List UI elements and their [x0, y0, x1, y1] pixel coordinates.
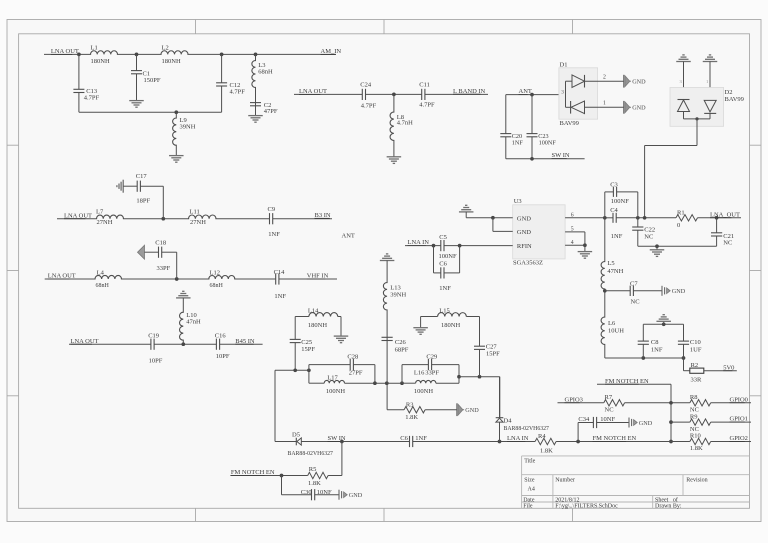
svg-text:1: 1: [603, 100, 606, 106]
svg-text:D1: D1: [560, 61, 568, 68]
svg-text:1UF: 1UF: [690, 347, 702, 354]
svg-text:ANT: ANT: [519, 88, 532, 95]
svg-text:100NH: 100NH: [414, 388, 433, 395]
svg-text:15PF: 15PF: [301, 346, 315, 353]
svg-text:180NH: 180NH: [441, 322, 460, 329]
svg-text:C10: C10: [690, 339, 701, 346]
svg-text:B3 IN: B3 IN: [315, 212, 331, 219]
svg-text:NC: NC: [631, 299, 640, 306]
svg-text:180NH: 180NH: [162, 58, 181, 65]
svg-text:R1: R1: [677, 210, 685, 217]
svg-text:LNA OUT: LNA OUT: [71, 338, 99, 345]
svg-text:10UH: 10UH: [608, 327, 624, 334]
svg-text:Number: Number: [555, 477, 575, 483]
svg-text:Title: Title: [524, 459, 535, 465]
svg-text:BAV99: BAV99: [560, 120, 579, 127]
svg-text:L12: L12: [210, 270, 220, 277]
svg-text:C29: C29: [426, 353, 437, 360]
svg-text:47NH: 47NH: [607, 268, 623, 275]
svg-text:33PF: 33PF: [157, 265, 171, 272]
svg-text:C24: C24: [360, 82, 372, 89]
svg-text:LNA OUT: LNA OUT: [51, 48, 79, 55]
svg-text:GPIO1: GPIO1: [730, 416, 748, 423]
svg-text:4.7PF: 4.7PF: [361, 103, 377, 110]
svg-text:6: 6: [571, 212, 574, 218]
svg-text:15PF: 15PF: [486, 351, 500, 358]
svg-text:L BAND IN: L BAND IN: [453, 88, 486, 95]
svg-text:RFIN: RFIN: [517, 243, 532, 250]
svg-text:1.8K: 1.8K: [690, 445, 703, 452]
svg-text:2: 2: [603, 74, 606, 80]
svg-text:L16: L16: [414, 370, 425, 377]
svg-text:BAV99: BAV99: [725, 96, 744, 103]
svg-text:B45 IN: B45 IN: [235, 338, 255, 345]
svg-text:L17: L17: [327, 375, 338, 382]
svg-text:L4: L4: [97, 270, 105, 277]
svg-text:LNA OUT: LNA OUT: [299, 88, 327, 95]
svg-text:100NH: 100NH: [326, 388, 345, 395]
svg-text:10PF: 10PF: [216, 353, 230, 360]
svg-text:FM NOTCH EN: FM NOTCH EN: [605, 378, 649, 385]
svg-text:68PF: 68PF: [395, 347, 409, 354]
svg-text:LNA IN: LNA IN: [408, 239, 430, 246]
svg-text:1NF: 1NF: [415, 435, 427, 442]
svg-text:C34: C34: [578, 416, 590, 423]
svg-text:47PF: 47PF: [264, 108, 278, 115]
svg-text:C18: C18: [155, 240, 166, 247]
svg-text:C14: C14: [274, 269, 286, 276]
svg-text:LNA OUT: LNA OUT: [48, 273, 76, 280]
svg-text:R9: R9: [690, 413, 698, 420]
svg-text:ANT: ANT: [342, 233, 355, 240]
svg-text:C19: C19: [148, 332, 159, 339]
svg-text:33PF: 33PF: [425, 370, 439, 377]
svg-text:VHF IN: VHF IN: [307, 273, 329, 280]
svg-text:R7: R7: [605, 394, 613, 401]
svg-text:R3: R3: [406, 402, 414, 409]
svg-text:GND: GND: [517, 229, 531, 236]
svg-text:180NH: 180NH: [91, 58, 110, 65]
svg-text:L2: L2: [162, 44, 169, 51]
svg-text:GND: GND: [632, 105, 646, 112]
svg-text:C16: C16: [215, 332, 227, 339]
svg-text:BAR88-02VH6327: BAR88-02VH6327: [288, 451, 334, 457]
svg-text:SW IN: SW IN: [552, 152, 570, 159]
svg-text:5: 5: [571, 227, 574, 233]
svg-text:C4: C4: [610, 207, 618, 214]
svg-text:1NF: 1NF: [268, 231, 280, 238]
svg-text:F:\yg\..\FILTERS.SchDoc: F:\yg\..\FILTERS.SchDoc: [555, 503, 618, 509]
svg-text:C26: C26: [395, 339, 407, 346]
svg-text:4: 4: [571, 240, 574, 246]
svg-text:150PF: 150PF: [144, 77, 161, 84]
svg-text:C9: C9: [268, 206, 276, 213]
svg-text:1NF: 1NF: [611, 233, 623, 240]
svg-text:U3: U3: [514, 198, 522, 205]
svg-text:R5: R5: [309, 466, 317, 473]
svg-text:LNA OUT: LNA OUT: [64, 212, 92, 219]
svg-text:GND: GND: [672, 288, 686, 295]
svg-text:1NF: 1NF: [274, 293, 286, 300]
svg-text:NC: NC: [605, 407, 614, 414]
svg-text:LNA IN: LNA IN: [507, 435, 529, 442]
svg-text:C6: C6: [439, 260, 447, 267]
svg-text:1.8K: 1.8K: [540, 448, 553, 455]
svg-text:68nH: 68nH: [258, 68, 273, 75]
svg-text:C7: C7: [630, 280, 638, 287]
svg-text:GND: GND: [632, 79, 646, 86]
svg-text:3: 3: [561, 89, 564, 95]
svg-text:100NF: 100NF: [611, 198, 629, 205]
svg-text:L7: L7: [96, 208, 104, 215]
svg-text:4.7PF: 4.7PF: [230, 89, 246, 96]
svg-text:AM_IN: AM_IN: [321, 48, 342, 55]
svg-text:D5: D5: [292, 431, 300, 438]
svg-text:GND: GND: [639, 420, 653, 427]
svg-text:27NH: 27NH: [190, 219, 206, 226]
svg-text:Revision: Revision: [686, 477, 707, 483]
svg-text:Drawn By:: Drawn By:: [655, 503, 682, 509]
svg-text:5V0: 5V0: [723, 364, 734, 371]
svg-text:GPIO2: GPIO2: [730, 435, 748, 442]
svg-text:NC: NC: [644, 233, 653, 240]
svg-text:GND: GND: [465, 407, 479, 414]
svg-text:10NF: 10NF: [600, 416, 615, 423]
svg-text:4.7PF: 4.7PF: [84, 95, 100, 102]
svg-text:C6: C6: [400, 435, 408, 442]
svg-text:C5: C5: [439, 234, 447, 241]
svg-text:68nH: 68nH: [210, 283, 224, 289]
svg-text:C11: C11: [419, 82, 430, 89]
svg-text:L5: L5: [607, 260, 614, 267]
svg-text:C27: C27: [486, 344, 498, 351]
svg-text:FM NOTCH EN: FM NOTCH EN: [231, 469, 275, 476]
svg-text:39NH: 39NH: [180, 123, 196, 130]
svg-text:A4: A4: [528, 487, 535, 493]
svg-text:D4: D4: [504, 418, 513, 425]
svg-text:R2: R2: [691, 362, 699, 369]
svg-text:4.7PF: 4.7PF: [419, 102, 435, 109]
svg-text:GND: GND: [517, 215, 531, 222]
svg-text:L1: L1: [91, 44, 98, 51]
svg-text:100NF: 100NF: [539, 140, 557, 147]
svg-text:1.8K: 1.8K: [308, 480, 321, 487]
svg-text:10PF: 10PF: [149, 358, 163, 365]
svg-text:1.8K: 1.8K: [405, 414, 418, 421]
svg-text:R4: R4: [538, 433, 546, 440]
svg-text:C25: C25: [301, 339, 312, 346]
svg-text:0: 0: [677, 222, 680, 229]
svg-text:27NH: 27NH: [97, 219, 113, 226]
svg-text:Sheet of: Sheet of: [655, 496, 678, 503]
svg-text:1NF: 1NF: [439, 285, 451, 292]
svg-text:10NF: 10NF: [317, 489, 332, 496]
svg-text:L14: L14: [308, 307, 319, 314]
svg-text:100NF: 100NF: [439, 253, 457, 260]
svg-text:C28: C28: [347, 353, 358, 360]
svg-text:33R: 33R: [691, 376, 703, 383]
svg-text:L11: L11: [190, 208, 200, 215]
svg-text:NC: NC: [723, 240, 732, 247]
svg-text:Size: Size: [524, 477, 535, 483]
svg-text:C17: C17: [136, 173, 148, 180]
svg-text:C3: C3: [610, 182, 618, 189]
svg-text:GPIO0: GPIO0: [730, 396, 748, 403]
svg-text:FM NOTCH EN: FM NOTCH EN: [593, 435, 637, 442]
svg-text:File: File: [523, 503, 533, 509]
svg-text:SGA3563Z: SGA3563Z: [513, 260, 543, 267]
svg-text:C8: C8: [651, 339, 659, 346]
svg-text:R10: R10: [690, 433, 701, 440]
svg-text:39NH: 39NH: [390, 291, 406, 298]
svg-text:180NH: 180NH: [308, 322, 327, 329]
svg-text:LNA_OUT: LNA_OUT: [710, 211, 740, 218]
svg-text:L6: L6: [608, 320, 616, 327]
svg-text:1NF: 1NF: [651, 347, 663, 354]
svg-text:C30: C30: [301, 489, 312, 496]
svg-text:GPIO3: GPIO3: [565, 396, 583, 403]
svg-text:GND: GND: [349, 492, 363, 499]
svg-text:18PF: 18PF: [136, 197, 150, 204]
svg-text:R8: R8: [690, 394, 698, 401]
svg-text:1NF: 1NF: [512, 140, 524, 147]
svg-text:4.7nH: 4.7nH: [397, 120, 413, 127]
svg-text:BAR88-02VH6327: BAR88-02VH6327: [504, 426, 550, 432]
svg-text:27PF: 27PF: [349, 370, 363, 377]
svg-text:68nH: 68nH: [96, 283, 110, 289]
svg-text:47nH: 47nH: [186, 318, 201, 325]
svg-text:L15: L15: [439, 307, 449, 314]
